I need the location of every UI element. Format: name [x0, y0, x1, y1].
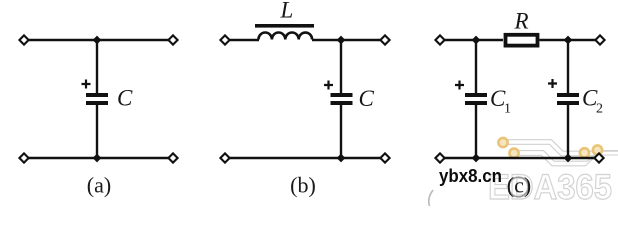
- watermark curve bottom-left: [429, 190, 433, 206]
- wire b top-left segment: [227, 39, 259, 41]
- node c bottom-left junction: [472, 154, 481, 163]
- terminal b top-left: [220, 35, 229, 44]
- resistor R: [506, 35, 538, 46]
- node a bottom junction: [93, 154, 102, 163]
- node a top junction: [93, 36, 102, 45]
- watermark stamp circle: [509, 177, 529, 197]
- terminal a top-right: [168, 35, 177, 44]
- node b bottom junction: [337, 154, 346, 163]
- terminal a top-left: [19, 35, 28, 44]
- terminal a bottom-right: [168, 153, 177, 162]
- svg-text:(c): (c): [507, 173, 531, 198]
- terminal a bottom-left: [19, 153, 28, 162]
- wire a bottom: [26, 157, 171, 159]
- terminal c top-left: [435, 35, 444, 44]
- watermark pad 4: [593, 145, 602, 154]
- wire c2 upper lead: [567, 40, 569, 94]
- svg-text:C: C: [117, 86, 133, 111]
- wire a top: [26, 39, 171, 41]
- label C1: [490, 86, 511, 117]
- svg-text:(a): (a): [87, 173, 111, 198]
- node c top-right junction: [564, 36, 573, 45]
- watermark trace upper: [507, 140, 618, 156]
- capacitor C (a) plates: [86, 93, 108, 105]
- svg-text:2: 2: [596, 102, 603, 117]
- terminal c bottom-right: [594, 153, 603, 162]
- wire b bottom: [227, 157, 383, 159]
- svg-text:C: C: [359, 86, 375, 111]
- wire b cap lower lead: [340, 105, 342, 158]
- capacitor C (b) plates: [331, 93, 353, 105]
- svg-text:ybx8.cn: ybx8.cn: [439, 166, 502, 186]
- inductor L coil: [259, 32, 313, 39]
- terminal b top-right: [380, 35, 389, 44]
- watermark pad 3: [580, 148, 589, 157]
- node c top-left junction: [472, 36, 481, 45]
- node b top junction: [337, 36, 346, 45]
- wire c1 upper lead: [475, 40, 477, 94]
- capacitor C1 polarity +: [455, 81, 464, 90]
- watermark pad 2: [509, 149, 518, 158]
- terminal b bottom-right: [380, 153, 389, 162]
- wire c2 lower lead: [567, 105, 569, 158]
- svg-text:(b): (b): [290, 173, 316, 198]
- svg-text:R: R: [514, 9, 529, 34]
- label C2: [582, 86, 603, 117]
- svg-text:1: 1: [504, 102, 511, 117]
- capacitor C (a) polarity +: [82, 80, 91, 89]
- wire b cap upper lead: [340, 40, 342, 94]
- node c bottom-right junction: [564, 154, 573, 163]
- wire c1 lower lead: [475, 105, 477, 158]
- svg-text:L: L: [280, 0, 294, 23]
- terminal c top-right: [595, 35, 604, 44]
- watermark EDA365 text: [488, 168, 612, 207]
- watermark trace lower: [518, 151, 618, 166]
- capacitor C2 polarity +: [548, 79, 557, 88]
- terminal c bottom-left: [435, 153, 444, 162]
- wire c bottom: [442, 157, 597, 159]
- inductor L core bar: [255, 24, 314, 28]
- wire c top-left segment: [442, 39, 503, 41]
- terminal b bottom-left: [220, 153, 229, 162]
- capacitor C1 plates: [465, 93, 487, 105]
- wire c top-right segment: [540, 39, 599, 41]
- wire a cap lower lead: [96, 105, 98, 158]
- capacitor C (b) polarity +: [324, 81, 333, 90]
- watermark pad 1: [498, 138, 507, 147]
- wire b top-right segment: [312, 39, 383, 41]
- capacitor C2 plates: [557, 93, 579, 105]
- wire a cap upper lead: [96, 40, 98, 94]
